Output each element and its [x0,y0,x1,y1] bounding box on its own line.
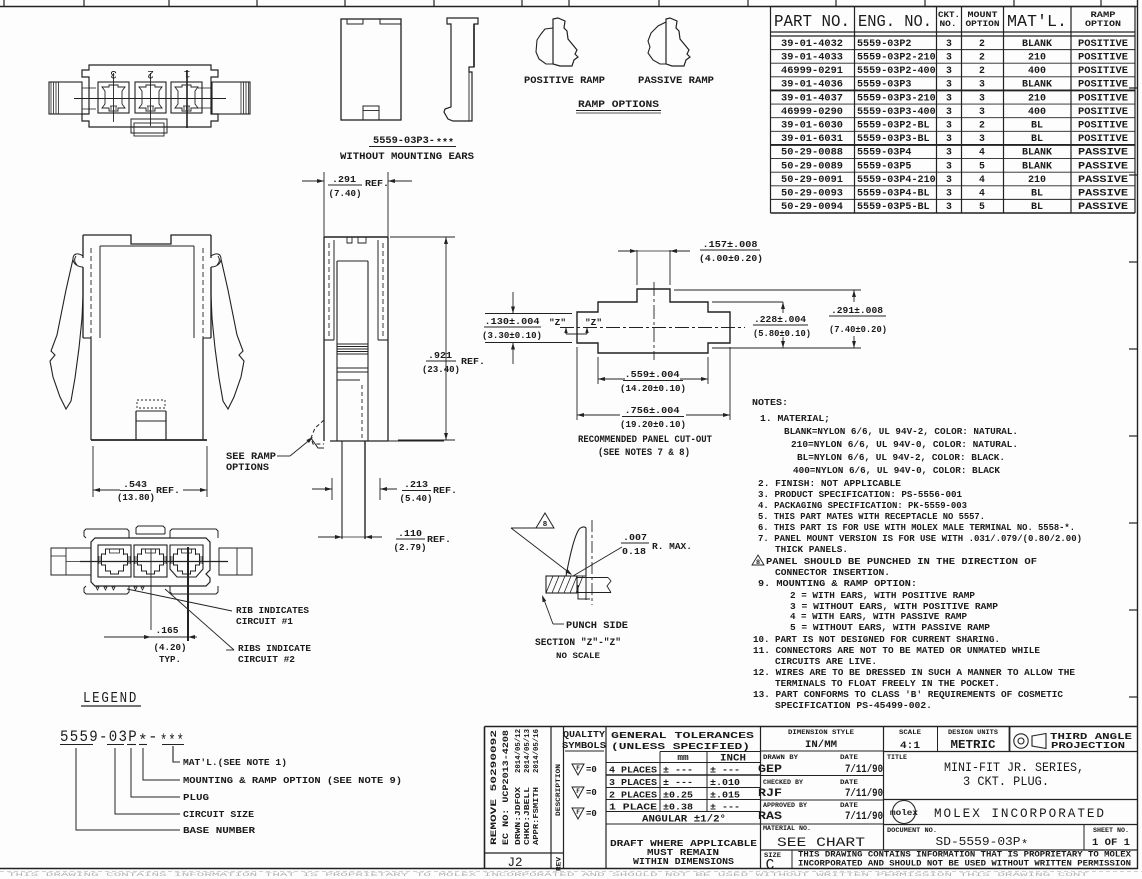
svg-text:SCALE: SCALE [899,729,921,736]
svg-text:400=NYLON 6/6, UL 94V-0, COLOR: 400=NYLON 6/6, UL 94V-0, COLOR: BLACK [793,465,1000,476]
svg-text:CONNECTOR INSERTION.: CONNECTOR INSERTION. [775,567,890,578]
svg-text:BL: BL [1031,133,1043,144]
quality symbol 1 [572,764,584,775]
svg-text:POSITIVE: POSITIVE [1078,51,1128,62]
svg-text:±0.38: ±0.38 [663,802,694,813]
svg-text:4: 4 [979,188,985,199]
svg-text:2: 2 [979,38,985,49]
plan view bottom notch [131,119,167,133]
svg-text:=0: =0 [586,788,597,798]
svg-text:EC NO: UCP2013-4208: EC NO: UCP2013-4208 [501,730,511,845]
svg-text:C: C [766,858,775,874]
svg-text:RAS: RAS [758,811,782,823]
plan view vertical center lines [113,73,115,122]
svg-text:3: 3 [946,160,952,171]
svg-text:1: 1 [183,67,190,79]
svg-text:400: 400 [1028,106,1046,117]
svg-text:4 PLACES: 4 PLACES [609,765,658,776]
svg-text:5559-03P2-400: 5559-03P2-400 [857,65,936,76]
connector plan view body [82,65,218,127]
svg-text:46999-0291: 46999-0291 [781,65,843,76]
svg-text:POSITIVE: POSITIVE [1078,92,1128,103]
svg-text:BASE NUMBER: BASE NUMBER [183,825,255,836]
general tolerances block [760,727,762,869]
panel cut-out vertical center line [653,282,655,360]
svg-text:POSITIVE: POSITIVE [1078,106,1128,117]
svg-text:CIRCUIT #1: CIRCUIT #1 [236,616,293,627]
plan view center line [74,98,226,100]
legend underline segments [60,744,93,746]
svg-text:5559-03P3-400: 5559-03P3-400 [857,106,936,117]
revision column [550,727,552,869]
plan view right wire lead [212,82,250,114]
dimension .291 (7.40) REF [323,172,325,237]
svg-text:.228±.004: .228±.004 [754,314,806,325]
tall side view dashed terminal line [361,385,363,440]
no-ears front view body [341,19,401,120]
svg-text:MINI-FIT JR. SERIES,: MINI-FIT JR. SERIES, [944,761,1084,775]
svg-text:(19.20±0.10): (19.20±0.10) [620,419,686,430]
svg-text:3: 3 [946,133,952,144]
dimension .213 (5.40) REF [331,478,333,500]
svg-text:BLANK=NYLON 6/6, UL 94V-2, COL: BLANK=NYLON 6/6, UL 94V-2, COLOR: NATURA… [784,426,1018,437]
svg-text:± ---: ± --- [663,765,693,776]
svg-text:PASSIVE: PASSIVE [1078,160,1128,171]
dimension .110 (2.79) REF [318,536,342,538]
svg-text:400: 400 [1028,65,1046,76]
front view mounting ear left [50,259,83,409]
svg-text:± ---: ± --- [710,802,740,813]
svg-text:J2: J2 [507,856,522,870]
svg-text:(7.40): (7.40) [329,188,362,199]
legend callout lines [173,746,180,762]
svg-text:THICK PANELS.: THICK PANELS. [775,544,848,555]
svg-text:3: 3 [979,92,985,103]
svg-text:.213: .213 [404,479,428,490]
svg-text:39-01-6031: 39-01-6031 [781,133,843,144]
svg-text:3: 3 [946,65,952,76]
svg-text:SHEET NO.: SHEET NO. [1093,827,1129,834]
svg-text:8: 8 [543,521,548,529]
svg-text:ANGULAR ±1/2°: ANGULAR ±1/2° [642,814,726,826]
tall side view inner body [337,260,368,262]
svg-text:2: 2 [147,67,154,79]
plan view circuit cavity 3 [98,82,129,113]
checked by row [761,799,884,801]
svg-text:POSITIVE: POSITIVE [1078,79,1128,90]
mating view top tabs [84,529,129,538]
mating view vertical line circuit2 [150,549,152,630]
svg-text:F: F [576,809,580,816]
svg-text:.007: .007 [623,532,647,543]
svg-text:DESIGN UNITS: DESIGN UNITS [948,729,998,736]
section center dash line [591,520,593,605]
svg-text:REF.: REF. [365,178,389,189]
front view left wall [82,235,84,258]
svg-text:RJF: RJF [758,788,782,800]
third angle projection symbol [1014,734,1028,748]
svg-text:3: 3 [946,92,952,103]
quality symbol 2 [572,787,584,798]
svg-text:6. THIS PART IS FOR USE WITH M: 6. THIS PART IS FOR USE WITH MOLEX MALE … [758,522,1075,533]
svg-text:5: 5 [979,160,985,171]
svg-text:mm: mm [677,752,689,763]
svg-text:POSITIVE: POSITIVE [1078,119,1128,130]
svg-text:SYMBOLS: SYMBOLS [562,741,606,751]
svg-text:QUALITY: QUALITY [563,730,606,740]
title box [884,799,1138,801]
dimension .921 (23.40) REF [390,236,455,238]
svg-text:4. PACKAGING SPECIFICATION: PK: 4. PACKAGING SPECIFICATION: PK-5559-003 [758,500,967,511]
tall side view legs [341,441,343,539]
svg-text:CHKD:JBELL: CHKD:JBELL [524,786,532,845]
panel cut-out horizontal center line [560,327,745,329]
svg-text:BLANK: BLANK [1022,160,1052,171]
svg-text:*: * [1021,838,1028,852]
svg-text:REF.: REF. [427,534,451,545]
svg-text:molex: molex [890,808,918,818]
svg-text:DATE: DATE [840,779,858,786]
svg-text:5559-03P4-210: 5559-03P4-210 [857,174,936,185]
svg-text:39-01-6030: 39-01-6030 [781,119,843,130]
svg-text:2. FINISH: NOT APPLICABLE: 2. FINISH: NOT APPLICABLE [758,478,901,489]
svg-text:BL=NYLON 6/6, UL 94V-2, COLOR:: BL=NYLON 6/6, UL 94V-2, COLOR: BLACK. [797,452,1005,463]
svg-text:RECOMMENDED PANEL CUT-OUT: RECOMMENDED PANEL CUT-OUT [578,434,712,445]
svg-text:2 PLACES: 2 PLACES [609,790,658,801]
svg-text:METRIC: METRIC [951,739,996,752]
svg-text:MOUNTING & RAMP OPTION (SEE NO: MOUNTING & RAMP OPTION (SEE NOTE 9) [183,775,402,786]
scale box [884,751,1138,753]
svg-text:2: 2 [979,65,985,76]
svg-text:50-29-0094: 50-29-0094 [781,201,843,212]
svg-text:NOTES:: NOTES: [752,397,788,408]
svg-text:BL: BL [1031,201,1043,212]
svg-text:12. WIRES ARE TO BE DRESSED IN: 12. WIRES ARE TO BE DRESSED IN SUCH A MA… [753,667,1075,678]
front view wall dashed lines [90,248,92,338]
svg-text:13. PART CONFORMS TO CLASS 'B': 13. PART CONFORMS TO CLASS 'B' REQUIREME… [753,689,1063,700]
svg-text:ENG. NO.: ENG. NO. [858,12,932,31]
right border zone ticks [1129,87,1138,89]
approved by row [761,823,884,825]
mating view left wire lead [51,548,91,575]
svg-text:POSITIVE RAMP: POSITIVE RAMP [524,75,605,86]
dimension style box [883,727,885,851]
svg-text:0.18: 0.18 [622,546,646,557]
svg-text:DESCRIPTION: DESCRIPTION [555,764,562,816]
drawing border frame [0,6,1138,8]
svg-text:1 OF 1: 1 OF 1 [1092,838,1130,849]
svg-text:(4.00±0.20): (4.00±0.20) [699,253,763,264]
svg-text:.165: .165 [156,625,179,636]
svg-text:REMOVE 50290092: REMOVE 50290092 [489,730,499,845]
svg-text:DRWN:JDFOX: DRWN:JDFOX [515,786,523,845]
mating view bottom tabs [84,586,129,594]
rib leader circuit 2 [165,589,234,650]
svg-text:50-29-0091: 50-29-0091 [781,174,843,185]
panel section right part with break [577,577,608,579]
svg-text:PLUG: PLUG [183,792,209,803]
svg-text:2 = WITH EARS, WITH POSITIVE R: 2 = WITH EARS, WITH POSITIVE RAMP [790,590,975,601]
dimension .157 (4.00) top tab [636,250,638,285]
svg-text:3: 3 [946,79,952,90]
tall side view outer walls [324,236,388,238]
svg-text:1. MATERIAL;: 1. MATERIAL; [760,413,830,424]
svg-text:5559-03P2-210: 5559-03P2-210 [857,51,936,62]
rib leader circuit 1 [127,589,232,611]
svg-text:50-29-0089: 50-29-0089 [781,160,843,171]
svg-text:(3.30±0.10): (3.30±0.10) [482,330,542,341]
svg-text:2: 2 [979,51,985,62]
size box [791,850,793,869]
svg-text:(5.40): (5.40) [400,493,433,504]
svg-text:TYP.: TYP. [159,654,181,665]
dimension .543 (13.80) REF [92,446,94,497]
molex logo [884,824,1138,826]
svg-text:3: 3 [979,133,985,144]
svg-text:*: * [138,732,148,750]
svg-text:SPECIFICATION PS-45499-002.: SPECIFICATION PS-45499-002. [775,700,932,711]
svg-text:CKT.: CKT. [938,11,960,20]
svg-text:3. PRODUCT SPECIFICATION: PS-5: 3. PRODUCT SPECIFICATION: PS-5556-001 [758,489,962,500]
svg-text:2014/05/12: 2014/05/12 [515,729,523,773]
no-ears side profile view [444,18,478,121]
mating view body [91,538,210,586]
svg-text:9. MOUNTING & RAMP OPTION:: 9. MOUNTING & RAMP OPTION: [758,578,917,589]
svg-text:OPTIONS: OPTIONS [226,462,269,473]
dimension .228 (5.80) [712,301,783,303]
svg-text:THIS DRAWING CONTAINS INFORMAT: THIS DRAWING CONTAINS INFORMATION THAT I… [798,851,1131,860]
svg-text:BL: BL [1031,188,1043,199]
svg-text:LEGEND: LEGEND [83,691,138,707]
svg-text:THIS DRAWING CONTAINS INFORMAT: THIS DRAWING CONTAINS INFORMATION THAT I… [8,871,1090,878]
note 8 flag triangle with leader [536,513,554,528]
svg-text:4: 4 [979,174,985,185]
quality symbols column [605,727,607,869]
svg-text:PASSIVE: PASSIVE [1078,188,1128,199]
svg-text:(4.20): (4.20) [154,642,187,653]
svg-text:POSITIVE: POSITIVE [1078,65,1128,76]
svg-text:APPROVED BY: APPROVED BY [763,802,807,809]
front view lower body [90,338,92,440]
svg-text:±.010: ±.010 [710,777,740,788]
plan view circuit cavity 2 [135,82,166,113]
no-ears front view bottom latch box [363,106,379,120]
front view latch hook left [73,254,83,267]
design units box [1009,727,1011,752]
dimension .559 (14.20) [597,357,599,384]
svg-text:.130±.004: .130±.004 [485,316,540,327]
svg-text:"Z": "Z" [585,318,602,328]
svg-text:5559-03P: 5559-03P [60,728,138,746]
passive ramp icon [666,18,690,66]
svg-text:SECTION "Z"-"Z": SECTION "Z"-"Z" [535,637,621,649]
mating view socket 3 [98,545,131,577]
svg-text:3: 3 [946,174,952,185]
svg-text:5559-03P2-BL: 5559-03P2-BL [857,119,930,130]
svg-text:46999-0290: 46999-0290 [781,106,843,117]
svg-text:RIBS INDICATE: RIBS INDICATE [238,643,311,654]
svg-text:.921: .921 [428,350,452,361]
tall side view body bottom [323,340,325,441]
svg-text:REF.: REF. [433,485,457,496]
svg-text:DOCUMENT NO.: DOCUMENT NO. [887,827,937,834]
part number table [770,7,772,214]
front view wall lower segments [82,267,84,338]
svg-text:5. THIS PART MATES WITH RECEPT: 5. THIS PART MATES WITH RECEPTACLE NO 55… [758,511,985,522]
svg-text:IN/MM: IN/MM [805,739,837,751]
svg-text:4:1: 4:1 [900,740,920,752]
mating view vertical line circuit1 (thick) [187,547,189,641]
svg-text:210: 210 [1028,92,1046,103]
svg-text:3: 3 [946,201,952,212]
svg-text:R. MAX.: R. MAX. [652,541,692,552]
svg-text:210=NYLON 6/6, UL 94V-0, COLOR: 210=NYLON 6/6, UL 94V-0, COLOR: NATURAL. [791,439,1018,450]
svg-text:.110: .110 [398,528,422,539]
svg-text:"Z": "Z" [549,318,566,328]
svg-text:39-01-4037: 39-01-4037 [781,92,843,103]
svg-text:(SEE NOTES 7 & 8): (SEE NOTES 7 & 8) [598,447,690,458]
svg-text:3: 3 [979,106,985,117]
drawn by row [761,775,884,777]
svg-text:POSITIVE: POSITIVE [1078,133,1128,144]
svg-text:SD-5559-03P: SD-5559-03P [936,835,1021,849]
svg-text:(14.20±0.10): (14.20±0.10) [620,383,686,394]
svg-text:5559-03P3-: 5559-03P3- [373,136,435,147]
svg-text:39-01-4032: 39-01-4032 [781,38,843,49]
svg-text:PUNCH SIDE: PUNCH SIDE [566,621,628,632]
svg-text:REF.: REF. [461,356,485,367]
svg-text:±0.25: ±0.25 [663,790,694,801]
svg-text:(5.80±0.10): (5.80±0.10) [753,328,811,339]
note 8 triangle flag [752,555,764,565]
plan view circuit cavity 1 [171,82,202,113]
svg-text:3: 3 [946,51,952,62]
punched connector profile bump [566,527,586,576]
svg-text:7/11/90: 7/11/90 [845,764,883,776]
svg-text:39-01-4036: 39-01-4036 [781,79,843,90]
svg-text:NO SCALE: NO SCALE [556,651,600,661]
svg-text:GENERAL TOLERANCES: GENERAL TOLERANCES [611,730,755,741]
svg-text:210: 210 [1028,51,1046,62]
svg-text:5559-03P3: 5559-03P3 [857,79,912,90]
svg-text:5559-03P4-BL: 5559-03P4-BL [857,188,930,199]
svg-text:TITLE: TITLE [887,754,907,761]
svg-text:3: 3 [110,67,117,79]
tall side view ramp bump (dashed) [311,420,324,444]
svg-text:INCH: INCH [720,753,746,765]
dimension .130 (3.30) band height [485,313,572,315]
mating view socket 1 [170,545,203,577]
svg-text:CHECKED BY: CHECKED BY [763,779,803,786]
svg-text:CIRCUIT SIZE: CIRCUIT SIZE [183,809,254,820]
svg-text:DATE: DATE [840,754,858,761]
svg-text:DATE: DATE [840,802,858,809]
svg-text:MOLEX INCORPORATED: MOLEX INCORPORATED [934,806,1106,821]
svg-text:CIRCUIT #2: CIRCUIT #2 [238,654,295,665]
svg-text:5 = WITHOUT EARS, WITH PASSIVE: 5 = WITHOUT EARS, WITH PASSIVE RAMP [790,622,990,633]
top border zone ticks [3,0,5,7]
svg-text:NO.: NO. [940,20,957,29]
tall side view terminal hatch lines [337,343,368,345]
svg-text:PANEL SHOULD BE PUNCHED IN THE: PANEL SHOULD BE PUNCHED IN THE DIRECTION… [766,556,1037,567]
svg-text:5559-03P2: 5559-03P2 [857,38,912,49]
svg-text:=0: =0 [586,765,597,775]
svg-text:BLANK: BLANK [1022,79,1052,90]
svg-text:3: 3 [946,147,952,158]
svg-text:1 PLACE: 1 PLACE [609,802,658,813]
svg-text:SEE RAMP: SEE RAMP [226,451,276,462]
svg-text:DRAWN BY: DRAWN BY [763,754,798,761]
svg-text:MATERIAL NO.: MATERIAL NO. [763,825,811,832]
svg-text:(UNLESS SPECIFIED): (UNLESS SPECIFIED) [611,741,750,752]
svg-text:7. PANEL MOUNT VERSION IS FOR: 7. PANEL MOUNT VERSION IS FOR USE WITH .… [758,533,1082,544]
svg-text:MOUNT: MOUNT [968,11,998,20]
svg-text:4 = WITH EARS, WITH PASSIVE RA: 4 = WITH EARS, WITH PASSIVE RAMP [790,611,967,622]
svg-text:8: 8 [756,559,760,567]
svg-text:REF.: REF. [156,485,180,496]
svg-text:± ---: ± --- [710,765,740,776]
svg-text:5559-03P5: 5559-03P5 [857,160,912,171]
dimension .291 (7.40) cutout [674,289,861,291]
faint cropped text row below border [0,871,1142,873]
svg-text:210: 210 [1028,174,1046,185]
svg-text:PASSIVE: PASSIVE [1078,174,1128,185]
svg-text:± ---: ± --- [663,777,693,788]
svg-text:GEP: GEP [758,764,782,776]
svg-text:RIB INDICATES: RIB INDICATES [236,605,309,616]
front view latch hook right [211,254,221,267]
svg-text:BLANK: BLANK [1022,38,1052,49]
svg-text:50-29-0088: 50-29-0088 [781,147,843,158]
svg-text:.291: .291 [332,174,356,185]
svg-text:3: 3 [946,188,952,199]
front view center latch box [135,411,137,440]
mating view socket 2 [134,545,167,577]
svg-text:3: 3 [979,79,985,90]
svg-text:5559-03P4: 5559-03P4 [857,147,912,158]
svg-text:=0: =0 [586,809,597,819]
svg-text:4: 4 [979,147,985,158]
tall side view dashed wall lines [328,243,330,338]
svg-text:5559-03P3-210: 5559-03P3-210 [857,92,936,103]
svg-text:BL: BL [1031,119,1043,130]
document no box [884,849,1138,851]
dimension .165 (4.20) TYP [131,636,151,638]
svg-text:2: 2 [979,119,985,130]
svg-text:.543: .543 [123,479,147,490]
positive ramp icon [553,18,578,66]
svg-text:5559-03P3-BL: 5559-03P3-BL [857,133,930,144]
svg-text:PART NO.: PART NO. [774,12,850,31]
svg-text:±.015: ±.015 [710,790,741,801]
svg-text:.291±.008: .291±.008 [831,305,883,316]
svg-text:APPR:FSMITH: APPR:FSMITH [533,787,541,845]
panel cut-out outline [577,289,730,353]
svg-text:POSITIVE: POSITIVE [1078,38,1128,49]
svg-text:WITHOUT MOUNTING EARS: WITHOUT MOUNTING EARS [340,152,474,163]
svg-text:3 PLACES: 3 PLACES [609,777,658,788]
svg-text:3 CKT. PLUG.: 3 CKT. PLUG. [963,775,1049,789]
front view top outline [83,235,211,244]
svg-text:5: 5 [979,201,985,212]
svg-text:7/11/90: 7/11/90 [845,788,883,800]
svg-text:50-29-0093: 50-29-0093 [781,188,843,199]
svg-text:DIMENSION STYLE: DIMENSION STYLE [788,729,854,736]
svg-text:(13.80): (13.80) [117,492,155,503]
svg-text:2014/05/13: 2014/05/13 [524,729,532,773]
svg-text:RAMP OPTIONS: RAMP OPTIONS [578,99,659,111]
svg-text:BLANK: BLANK [1022,147,1052,158]
